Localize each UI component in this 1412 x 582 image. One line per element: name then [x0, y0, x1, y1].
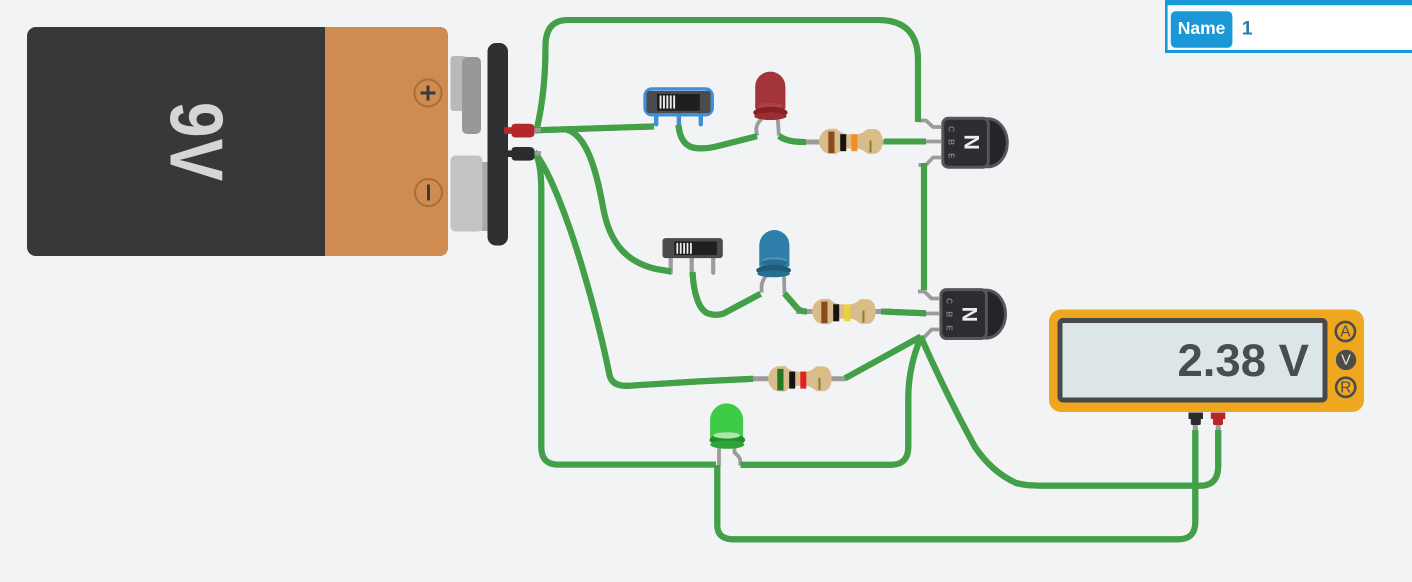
svg-text:B: B — [944, 311, 953, 317]
svg-text:C: C — [944, 298, 953, 304]
svg-text:B: B — [946, 139, 955, 145]
svg-text:E: E — [946, 153, 955, 159]
svg-text:E: E — [944, 325, 953, 331]
svg-text:C: C — [946, 126, 955, 132]
svg-text:1: 1 — [1242, 17, 1253, 39]
svg-text:N: N — [958, 307, 982, 323]
svg-text:9V: 9V — [155, 102, 239, 182]
svg-text:2.38 V: 2.38 V — [1177, 335, 1309, 386]
svg-text:V: V — [1341, 353, 1351, 369]
svg-text:N: N — [960, 134, 984, 150]
svg-text:Name: Name — [1178, 18, 1226, 38]
svg-text:R: R — [1340, 379, 1351, 396]
svg-text:A: A — [1340, 324, 1351, 341]
